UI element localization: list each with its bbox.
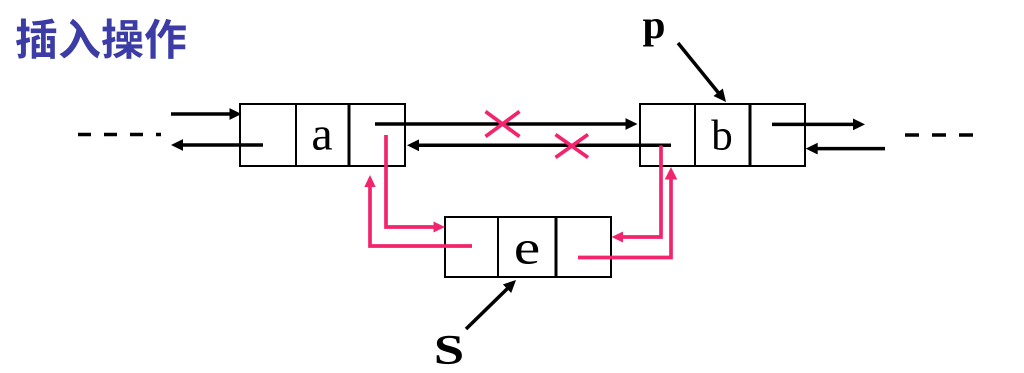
pink new link B.prior down to E (621, 146, 661, 238)
svg-text:S: S (434, 328, 465, 373)
svg-text:b: b (711, 113, 733, 160)
cross X on A.next (486, 112, 520, 137)
node B box (640, 104, 805, 166)
svg-text:p: p (643, 2, 666, 47)
pink new link E.prior up to A (370, 186, 472, 246)
arrow into node A from left (171, 112, 230, 116)
svg-text:e: e (514, 222, 541, 275)
title 插入操作 (16, 18, 186, 58)
cross X on B.prior (556, 135, 589, 158)
node A box (240, 104, 405, 166)
crossed next arrow A to B (375, 122, 626, 126)
dashed line left (78, 133, 161, 137)
pointer arrow p (678, 43, 719, 94)
arrow out of node B next (rightwards) (772, 123, 853, 127)
arrow out of node A prior (leftwards) (182, 143, 263, 147)
dashed line right (905, 133, 975, 137)
pink new link E.next up to B (578, 178, 671, 258)
crossed prior arrow B to A (418, 144, 671, 148)
pink new link A.next down to E (386, 135, 435, 227)
arrow into node B from right (817, 147, 885, 151)
pointer arrow S (466, 288, 508, 329)
node E box (445, 217, 611, 277)
svg-text:a: a (311, 108, 332, 161)
